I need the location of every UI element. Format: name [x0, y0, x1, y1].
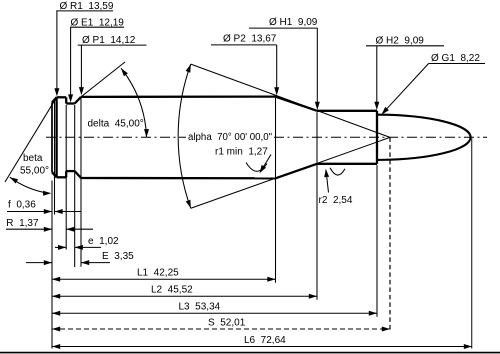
svg-text:Ø R1 13,59: Ø R1 13,59	[60, 1, 114, 12]
r2 leader arrow	[326, 173, 328, 193]
svg-text:55,00°: 55,00°	[20, 166, 49, 177]
svg-text:L6 72,64: L6 72,64	[244, 335, 286, 346]
extension line neck start	[316, 112, 318, 299]
rim back edge bottom	[65, 171, 67, 177]
svg-text:r1 min 1,27: r1 min 1,27	[215, 147, 268, 158]
delta cone construction line	[81, 62, 125, 97]
svg-text:E 3,35: E 3,35	[102, 251, 134, 262]
svg-text:L3 53,34: L3 53,34	[179, 302, 221, 313]
rim bottom surface	[57, 176, 67, 178]
bullet ogive	[377, 115, 471, 160]
shoulder bottom	[276, 164, 318, 179]
delta arc arrow lower (on axis)	[144, 129, 149, 137]
extractor groove bottom	[66, 170, 75, 172]
case mouth	[376, 111, 378, 164]
r1 leader arrow	[262, 155, 272, 171]
svg-text:L1 42,25: L1 42,25	[137, 268, 179, 279]
neck top	[317, 110, 377, 112]
label alpha angle	[186, 130, 272, 142]
delta angle arc	[121, 68, 147, 137]
extension line head face	[51, 181, 53, 349]
groove ramp top	[75, 97, 81, 104]
svg-text:Ø G1 8,22: Ø G1 8,22	[431, 53, 480, 64]
r2 radius reference arc	[330, 168, 345, 175]
svg-text:R 1,37: R 1,37	[6, 218, 39, 229]
delta arc arrow upper	[121, 68, 128, 76]
case body top	[81, 95, 276, 98]
extension line S point (dashed)	[389, 137, 391, 331]
leader G1	[384, 64, 429, 112]
extension line rim back	[65, 105, 67, 250]
svg-text:delta 45,00°: delta 45,00°	[88, 118, 144, 129]
extension line case mouth	[376, 165, 378, 317]
leader H1	[316, 28, 318, 106]
beta angle arc	[10, 177, 49, 193]
svg-text:Ø P2 13,67: Ø P2 13,67	[223, 33, 277, 44]
head bevel bottom	[52, 172, 57, 177]
groove ramp bottom	[75, 171, 81, 178]
svg-text:L2 45,52: L2 45,52	[151, 285, 193, 296]
rim bevel edge line	[55, 97, 57, 177]
head bevel top	[52, 97, 57, 102]
svg-text:e 1,02: e 1,02	[88, 236, 119, 247]
bottom border line	[0, 352, 500, 354]
neck bottom	[317, 163, 377, 165]
leader E1	[70, 27, 72, 99]
extension line f (bevel end)	[54, 101, 56, 215]
svg-text:Ø H1 9,09: Ø H1 9,09	[269, 17, 318, 28]
svg-text:alpha 70° 00' 00,0": alpha 70° 00' 00,0"	[188, 132, 273, 143]
svg-text:beta: beta	[23, 153, 43, 164]
r1 radius reference arc	[246, 163, 267, 172]
beta arc arrow upper	[10, 177, 18, 183]
alpha arc arrow upper	[186, 64, 191, 73]
svg-text:f 0,36: f 0,36	[8, 200, 36, 211]
case body bottom	[81, 177, 276, 180]
centerline (case axis)	[46, 136, 487, 138]
alpha cone line top	[191, 64, 390, 137]
extension line shoulder start	[275, 98, 277, 283]
svg-text:r2 2,54: r2 2,54	[319, 195, 353, 206]
alpha angle arc	[178, 64, 191, 208]
rim back edge top	[65, 97, 67, 103]
extension line bullet tip	[471, 137, 473, 348]
shoulder top	[276, 97, 318, 111]
svg-text:Ø P1 14,12: Ø P1 14,12	[82, 35, 136, 46]
extension line groove end	[74, 105, 76, 267]
alpha arc arrow lower	[186, 200, 191, 209]
leader P1	[80, 45, 82, 91]
beta arc arrow lower (points at head line)	[43, 191, 51, 196]
alpha cone line bottom	[191, 137, 390, 208]
leader P2	[276, 45, 278, 92]
svg-text:Ø H2 9,09: Ø H2 9,09	[376, 36, 425, 47]
case head face	[51, 103, 53, 173]
svg-text:S 52,01: S 52,01	[208, 317, 246, 328]
leader H2	[376, 46, 378, 107]
extension line body start	[80, 98, 82, 267]
beta cone construction line	[5, 97, 57, 182]
extractor groove top	[66, 102, 75, 104]
leader R1	[56, 11, 58, 93]
rim top surface	[57, 96, 67, 98]
